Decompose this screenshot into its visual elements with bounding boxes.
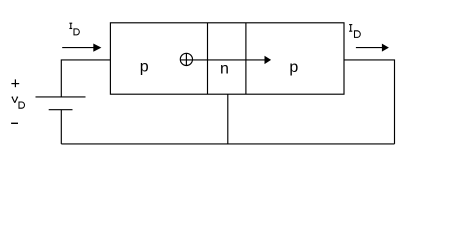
label I (top left) [69, 23, 72, 28]
hole drift arrow shaft [181, 59, 265, 61]
wire from battery + to box left [61, 60, 110, 97]
current arrow I_D right shaft [356, 47, 383, 49]
battery plate short (-) [49, 109, 73, 111]
current arrow I_D left shaft [62, 47, 94, 49]
battery V label [12, 97, 19, 103]
n-region tap wire [227, 94, 229, 144]
wire from box right to right rail [344, 60, 395, 144]
hole drift arrowhead [265, 56, 272, 64]
hole symbol (circle with cross) [180, 53, 192, 65]
label I (top right) [349, 25, 352, 32]
current arrow I_D left head [93, 44, 101, 52]
junction divider 1 (p|n) [207, 23, 209, 94]
svg-text:n: n [220, 61, 229, 78]
label D subscript (top right) [355, 31, 361, 38]
semiconductor body box [110, 23, 344, 94]
current arrow I_D right head [382, 44, 389, 52]
battery + label [11, 83, 19, 85]
bottom return wire [61, 143, 394, 145]
label D subscript (top left) [74, 29, 79, 35]
label D subscript (V_D) [19, 102, 24, 108]
battery - label [11, 122, 18, 124]
svg-text:p: p [289, 59, 298, 76]
battery plate long (+) [36, 96, 86, 98]
svg-text:p: p [140, 59, 149, 76]
wire from battery - down [60, 110, 62, 144]
junction divider 2 (n|p) [245, 23, 247, 94]
